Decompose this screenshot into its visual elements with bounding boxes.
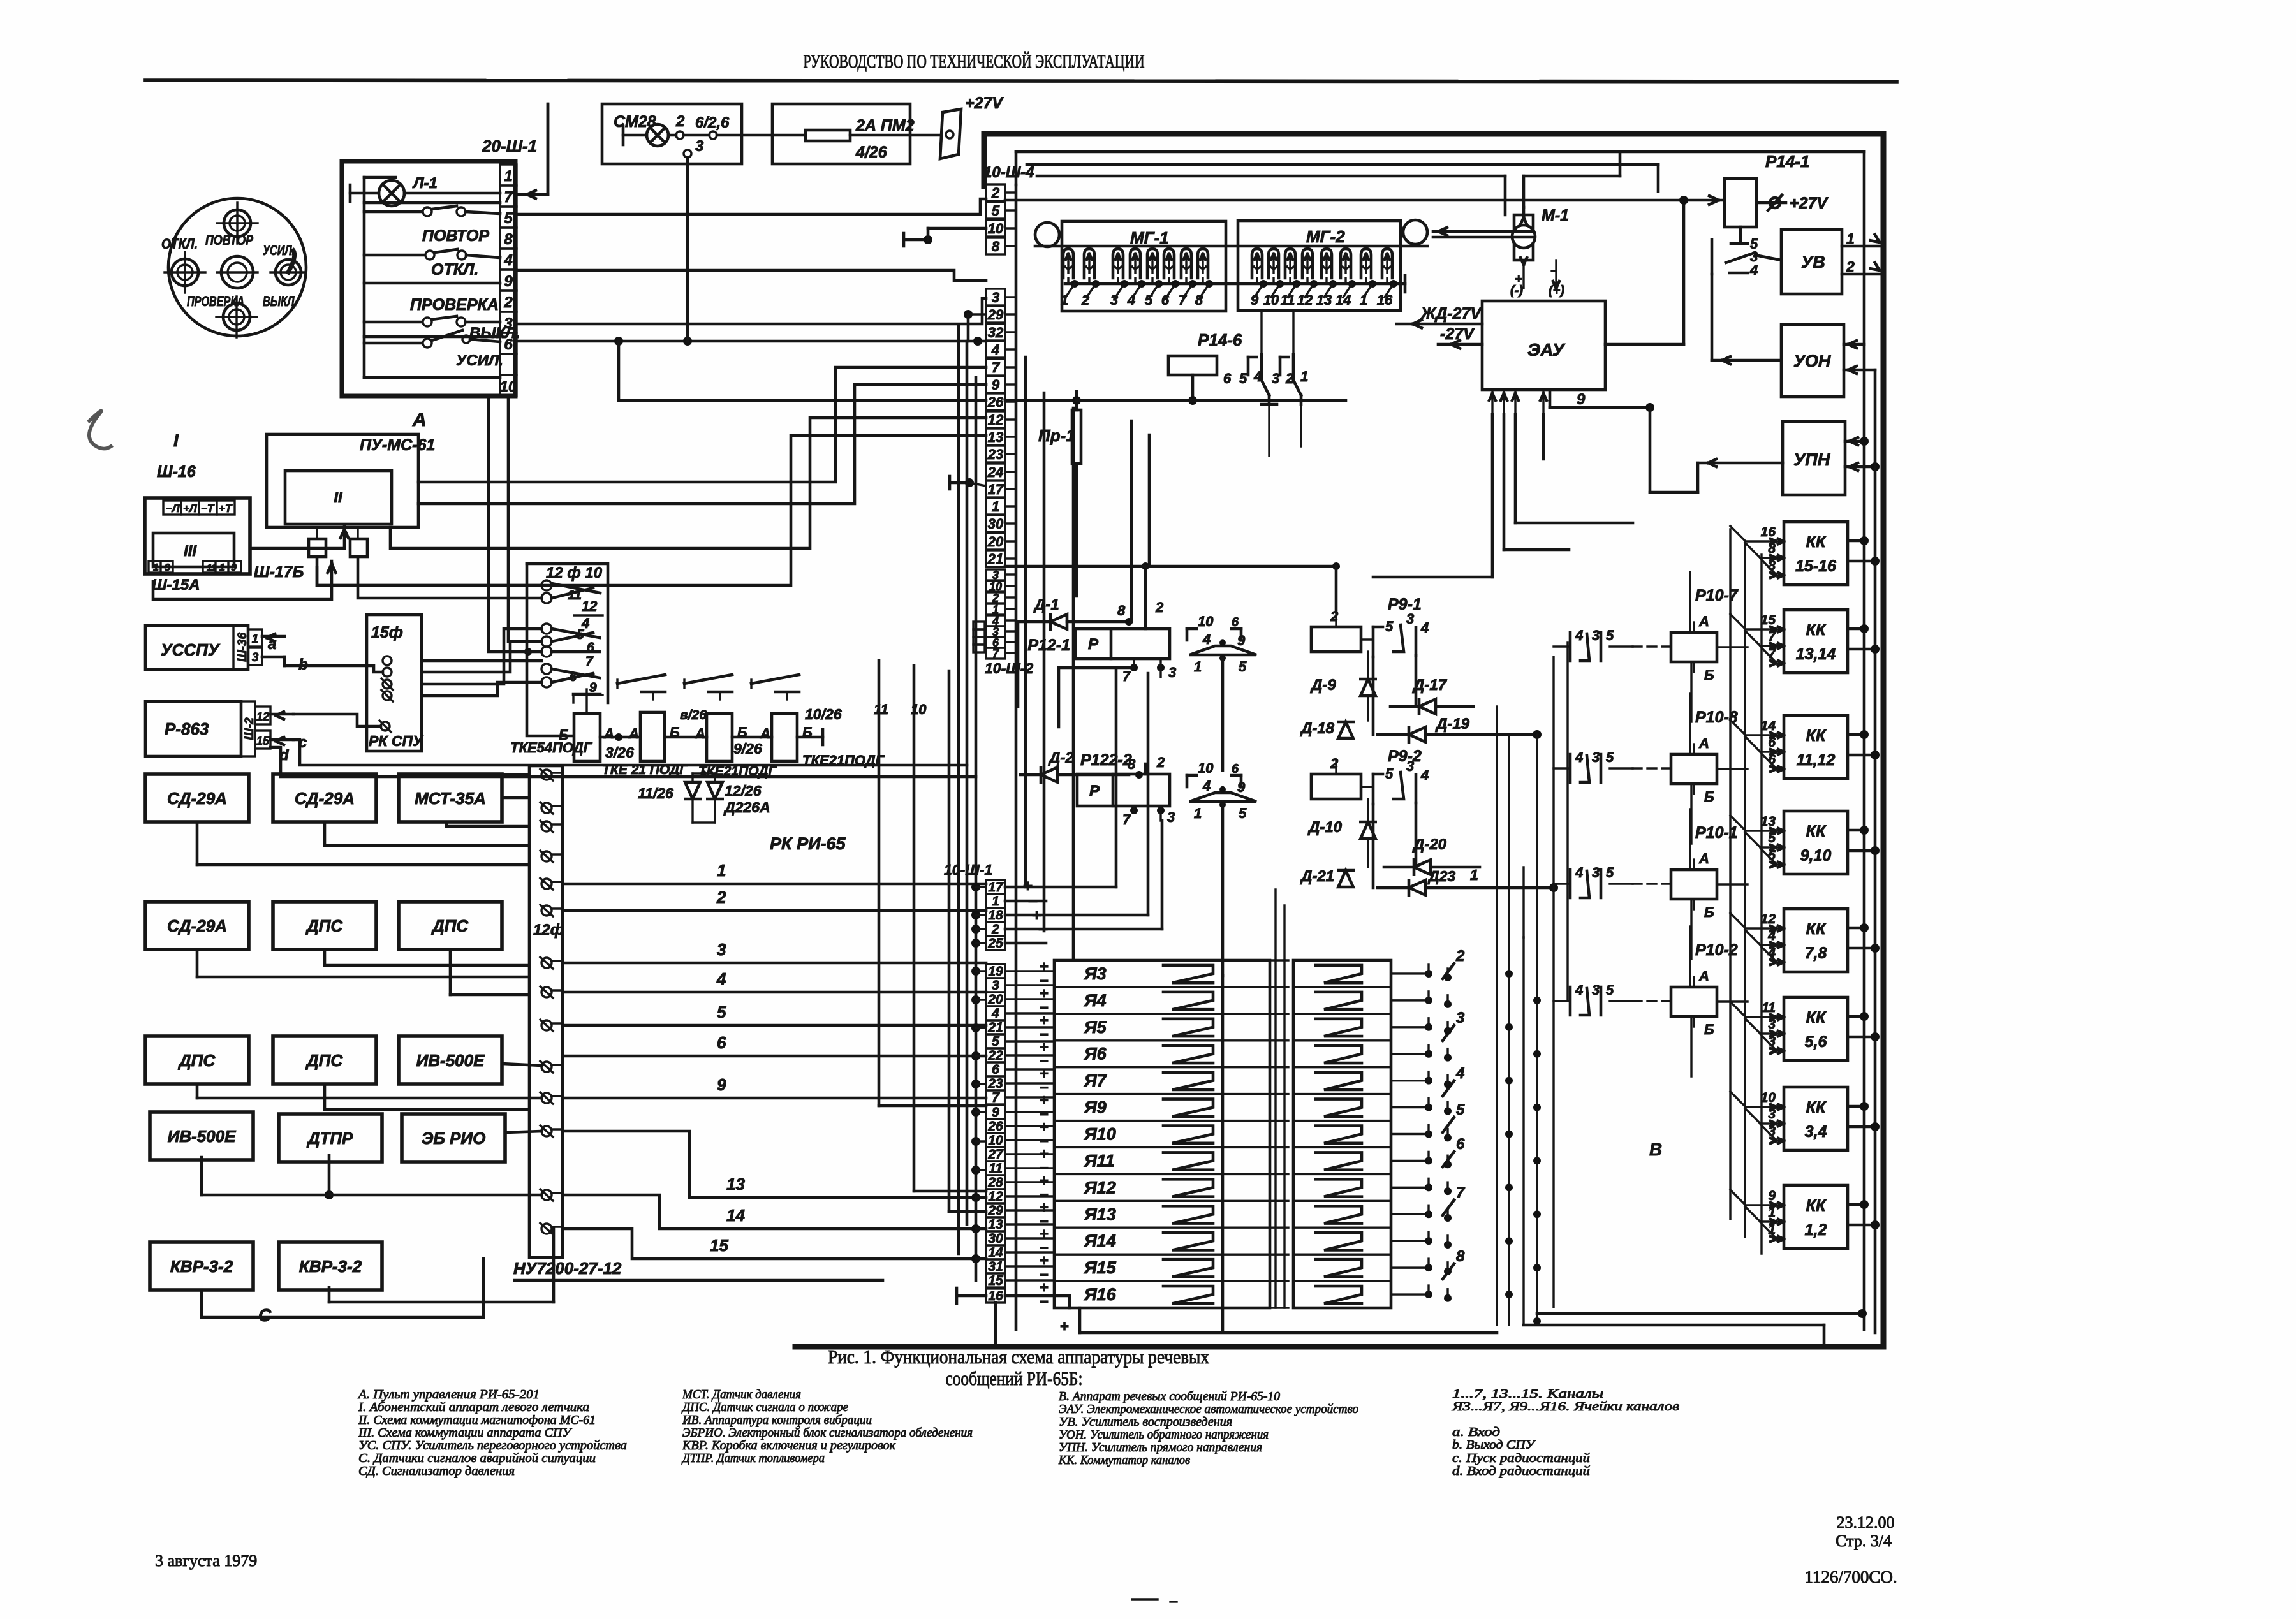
sensor box СД-29А <box>145 902 249 949</box>
svg-text:5: 5 <box>1239 659 1247 675</box>
svg-text:3: 3 <box>1592 749 1600 765</box>
svg-text:УС. СПУ. Усилитель переговорно: УС. СПУ. Усилитель переговорного устройс… <box>358 1439 627 1453</box>
wire TKE54 to TKE21 A-A <box>600 736 640 739</box>
sensor box СД-29А <box>273 774 376 822</box>
wires RK SPU to 12f10 <box>422 659 541 663</box>
svg-text:1: 1 <box>219 562 225 573</box>
svg-text:4: 4 <box>1202 778 1211 794</box>
stubs strip to inner bundle <box>1005 191 1016 193</box>
svg-text:А: А <box>603 726 614 742</box>
EAU box <box>1482 301 1605 390</box>
R9-1 contacts <box>1372 627 1375 657</box>
svg-text:СД-29А: СД-29А <box>167 789 227 808</box>
svg-text:10: 10 <box>1198 760 1214 776</box>
svg-text:32: 32 <box>988 325 1004 341</box>
amplifier UV box <box>1781 230 1842 294</box>
NU7200 bottom line <box>515 1279 883 1282</box>
unit B outer border <box>984 131 1883 137</box>
svg-text:В: В <box>1649 1139 1662 1159</box>
tape reel left <box>1035 223 1059 247</box>
svg-text:11: 11 <box>1762 1000 1776 1015</box>
svg-text:9: 9 <box>717 1075 726 1094</box>
R14-1 to +27V <box>1756 201 1786 205</box>
svg-text:3: 3 <box>1406 611 1414 627</box>
svg-text:6: 6 <box>717 1033 726 1052</box>
svg-text:ПРОВЕРКА: ПРОВЕРКА <box>410 296 499 314</box>
connector strip cells upper <box>986 184 1005 201</box>
R14-1 lower switch <box>1739 227 1742 241</box>
junction dots on left bus <box>971 883 980 891</box>
svg-text:+Л: +Л <box>183 502 197 515</box>
unit II box <box>285 471 392 524</box>
wires row3 to column <box>196 1084 199 1098</box>
amplifier UON box <box>1781 325 1844 397</box>
switch VYKL-USIL <box>364 342 422 345</box>
svg-text:9: 9 <box>231 562 237 573</box>
svg-text:5: 5 <box>1606 865 1614 881</box>
svg-text:МСТ-35А: МСТ-35А <box>415 789 486 808</box>
svg-text:9: 9 <box>589 680 597 695</box>
svg-text:5: 5 <box>1606 982 1614 998</box>
svg-text:6: 6 <box>1232 615 1239 629</box>
svg-text:Ш-15А: Ш-15А <box>152 576 200 594</box>
sensor box МСТ-35А <box>399 774 502 822</box>
svg-text:13,14: 13,14 <box>1796 645 1836 663</box>
svg-text:ЭАУ: ЭАУ <box>1527 340 1566 360</box>
wires Sh-17B arrows <box>250 527 344 548</box>
svg-text:Р12-1: Р12-1 <box>1027 636 1070 654</box>
svg-text:А: А <box>1698 613 1709 629</box>
R-863 Sh-2 cells <box>241 701 255 756</box>
svg-text:8: 8 <box>1456 1248 1465 1265</box>
left bus verticals before strip <box>957 326 960 1254</box>
svg-text:ДПС: ДПС <box>305 916 343 935</box>
svg-text:1...7, 13...15. Каналы: 1...7, 13...15. Каналы <box>1452 1387 1603 1401</box>
sensor box ДПС <box>273 902 376 949</box>
sensor box ИВ-500Е <box>399 1036 502 1084</box>
tape line <box>1035 245 1427 248</box>
svg-text:15: 15 <box>988 1273 1003 1288</box>
svg-text:3: 3 <box>717 940 726 959</box>
tape reel right <box>1403 220 1427 244</box>
EAU bottom wire risers <box>1491 414 1494 577</box>
svg-text:5: 5 <box>1606 749 1614 765</box>
svg-text:9: 9 <box>1768 1189 1776 1203</box>
svg-text:КК. Коммутатор каналов: КК. Коммутатор каналов <box>1058 1453 1190 1467</box>
svg-text:Я7: Я7 <box>1084 1071 1108 1090</box>
wire panel pin4 to strip <box>517 270 986 281</box>
svg-text:15ф: 15ф <box>371 624 403 641</box>
svg-text:7: 7 <box>1122 812 1131 828</box>
KK 9,10 outputs <box>1848 829 1864 832</box>
svg-text:1: 1 <box>1768 1205 1776 1220</box>
svg-text:15: 15 <box>256 735 270 747</box>
svg-text:13: 13 <box>1761 814 1776 829</box>
svg-text:3: 3 <box>1456 1009 1465 1027</box>
wire cell26 row to R14-6 <box>1005 399 1077 402</box>
channel wire 13 staircase <box>564 1131 986 1198</box>
wires bundle bottoms to cells <box>879 1104 986 1108</box>
svg-text:в/26: в/26 <box>680 708 707 722</box>
svg-text:ПУ-МС-61: ПУ-МС-61 <box>360 436 435 454</box>
sensor box ЭБ РИО <box>402 1114 505 1162</box>
svg-text:Д-9: Д-9 <box>1310 677 1336 694</box>
svg-text:16: 16 <box>988 1289 1003 1303</box>
motor M-1 wires to MG-2 <box>1433 230 1533 233</box>
svg-text:СД. Сигнализатор давления: СД. Сигнализатор давления <box>358 1464 515 1478</box>
cam and junction verticals extended <box>1221 976 1225 1330</box>
svg-text:СД-29А: СД-29А <box>167 916 227 935</box>
svg-text:С. Датчики сигналов аварийной: С. Датчики сигналов аварийной ситуации <box>358 1451 596 1465</box>
svg-text:А: А <box>628 726 639 742</box>
svg-text:1: 1 <box>992 603 999 616</box>
left bottom border of B <box>994 1303 997 1347</box>
wires II to strip <box>418 367 986 482</box>
panel A outer box <box>342 161 515 396</box>
KK input feeder verticals <box>1729 529 1731 1219</box>
svg-text:2: 2 <box>1330 608 1339 624</box>
svg-text:11: 11 <box>874 701 888 717</box>
commutator KK 1,2 <box>1784 1185 1848 1249</box>
svg-text:М-1: М-1 <box>1542 207 1569 224</box>
bus bundle inside B <box>1024 357 1027 887</box>
svg-text:21: 21 <box>987 551 1003 567</box>
svg-text:Д-21: Д-21 <box>1300 868 1334 885</box>
svg-text:5: 5 <box>1239 805 1247 821</box>
svg-text:9: 9 <box>504 273 513 290</box>
svg-text:a. Вход: a. Вход <box>1452 1425 1500 1439</box>
tape deck MG-1 box <box>1062 221 1226 311</box>
TKE21-1 contact <box>684 675 732 684</box>
svg-text:10: 10 <box>988 1133 1003 1148</box>
svg-text:24: 24 <box>987 464 1003 480</box>
unit III box <box>153 533 234 567</box>
svg-text:1: 1 <box>153 562 159 573</box>
svg-text:9: 9 <box>1237 633 1246 648</box>
svg-text:11: 11 <box>1281 292 1295 308</box>
svg-text:Р10-7: Р10-7 <box>1695 587 1739 604</box>
motor arrows <box>1520 217 1527 225</box>
svg-text:6: 6 <box>1768 735 1776 750</box>
svg-text:КК: КК <box>1806 727 1827 745</box>
svg-text:1: 1 <box>1194 659 1202 675</box>
svg-text:В. Аппарат речевых сообщений Р: В. Аппарат речевых сообщений РИ-65-10 <box>1059 1389 1280 1403</box>
svg-text:7: 7 <box>585 654 594 669</box>
svg-text:1: 1 <box>1194 805 1202 821</box>
svg-text:15-16: 15-16 <box>1795 557 1837 575</box>
svg-text:ПОВТОР: ПОВТОР <box>422 227 489 245</box>
wire panel pin2 to strip <box>517 298 986 324</box>
svg-text:Р-863: Р-863 <box>165 719 209 738</box>
relay Р10-7 contacts <box>1569 633 1572 661</box>
relay Р10-2 contacts <box>1569 987 1572 1015</box>
svg-text:6: 6 <box>992 1062 999 1077</box>
channel wire 15 staircase <box>564 1229 986 1259</box>
unit I bottom pins <box>149 561 173 573</box>
svg-text:10: 10 <box>1198 613 1214 629</box>
svg-text:КК: КК <box>1806 621 1827 639</box>
wires row4 to column <box>200 1157 203 1195</box>
svg-text:9,10: 9,10 <box>1800 847 1832 865</box>
svg-text:1: 1 <box>992 499 999 515</box>
svg-text:2: 2 <box>1455 948 1465 965</box>
commutator KK 11,12 <box>1784 715 1848 779</box>
lamp L-1 <box>349 185 352 201</box>
panel A pin strip <box>500 165 517 186</box>
Sh-16 pin cells <box>163 501 235 515</box>
svg-text:−Т: −Т <box>201 502 215 515</box>
svg-text:С: С <box>258 1305 272 1325</box>
svg-text:4: 4 <box>1202 631 1211 647</box>
svg-text:Рис. 1. Функциональная схема а: Рис. 1. Функциональная схема аппаратуры … <box>828 1345 1209 1368</box>
svg-text:5: 5 <box>1456 1101 1465 1118</box>
svg-text:Я9: Я9 <box>1084 1098 1107 1117</box>
svg-text:Б: Б <box>1704 1022 1714 1037</box>
nested wires left of strip upper <box>686 321 689 341</box>
svg-text:КК: КК <box>1806 1009 1827 1027</box>
strip left stub wires <box>927 228 930 240</box>
wire panel pin5 to strip <box>517 199 986 214</box>
unit B inner left border <box>1015 185 1018 1330</box>
svg-text:Я10: Я10 <box>1084 1125 1116 1144</box>
svg-text:20: 20 <box>987 534 1004 550</box>
svg-text:ЖД-27V: ЖД-27V <box>1420 305 1482 323</box>
svg-text:b. Выход СПУ: b. Выход СПУ <box>1452 1438 1536 1452</box>
relay Р10-8 coil <box>1671 754 1717 784</box>
svg-text:Д-10: Д-10 <box>1307 819 1343 836</box>
svg-text:16: 16 <box>1761 525 1776 539</box>
svg-text:2: 2 <box>991 185 1000 201</box>
svg-text:29: 29 <box>987 1203 1003 1218</box>
svg-text:ДПС: ДПС <box>305 1051 343 1070</box>
dimmer contacts <box>668 134 676 137</box>
svg-text:4: 4 <box>1575 749 1583 765</box>
svg-text:2: 2 <box>992 592 999 604</box>
top inner nested lines <box>1027 163 1658 166</box>
svg-text:6: 6 <box>1232 762 1239 776</box>
svg-text:Б: Б <box>1704 904 1714 920</box>
svg-text:2: 2 <box>991 922 999 937</box>
svg-text:5: 5 <box>992 203 1000 219</box>
svg-text:6/2,6: 6/2,6 <box>695 114 730 131</box>
tbar cell17 area <box>948 476 952 489</box>
R9-2 contacts <box>1372 774 1375 804</box>
svg-text:Д226А: Д226А <box>723 799 770 816</box>
commutator KK 13,14 <box>1784 610 1848 673</box>
svg-text:12/26: 12/26 <box>725 782 762 799</box>
unit B inner top line <box>1016 150 1864 154</box>
wires R-863 to RK SPU <box>293 714 381 726</box>
svg-text:Д-17: Д-17 <box>1412 677 1448 694</box>
svg-text:КК: КК <box>1806 533 1827 551</box>
svg-text:ВЫКЛ.: ВЫКЛ. <box>469 325 520 342</box>
R14-6 contact risers <box>1260 311 1262 355</box>
ZhD arrows <box>1397 323 1482 326</box>
svg-text:2: 2 <box>1156 754 1165 770</box>
svg-text:ЭАУ. Электромеханическое автом: ЭАУ. Электромеханическое автоматическое … <box>1059 1402 1358 1416</box>
svg-text:А: А <box>412 409 427 430</box>
arrow a into USSPU <box>262 635 284 638</box>
svg-text:9: 9 <box>992 1105 999 1120</box>
svg-text:7,8: 7,8 <box>1805 944 1827 962</box>
svg-text:14: 14 <box>1336 292 1351 308</box>
svg-text:Д-19: Д-19 <box>1435 715 1470 733</box>
svg-text:ПОВТОР: ПОВТОР <box>205 232 253 248</box>
svg-text:ЭБ РИО: ЭБ РИО <box>422 1129 486 1148</box>
wire +27 tbar <box>902 233 906 246</box>
svg-text:5: 5 <box>504 210 513 227</box>
svg-text:Я4: Я4 <box>1084 991 1107 1010</box>
svg-text:Я15: Я15 <box>1084 1258 1117 1277</box>
svg-text:Р: Р <box>1089 782 1100 800</box>
dimmer pin 3 <box>684 150 691 158</box>
motor M-1 <box>1514 215 1533 260</box>
cell 16 ground stub <box>957 1294 986 1298</box>
svg-text:9: 9 <box>1577 391 1586 408</box>
svg-text:3: 3 <box>1168 664 1176 680</box>
svg-text:ДПС: ДПС <box>178 1051 216 1070</box>
svg-text:УССПУ: УССПУ <box>161 640 221 659</box>
channel cell Я9 <box>1054 1093 1270 1095</box>
channel cell Я13 <box>1054 1200 1270 1202</box>
commutator KK 9,10 <box>1784 811 1848 874</box>
svg-text:3: 3 <box>1592 982 1600 998</box>
head bus <box>1065 282 1405 286</box>
svg-text:2: 2 <box>716 888 726 907</box>
svg-text:3: 3 <box>1592 865 1600 881</box>
sensor box ДПС <box>145 1036 249 1084</box>
svg-text:12: 12 <box>988 1189 1003 1204</box>
svg-text:КВР-3-2: КВР-3-2 <box>299 1257 362 1276</box>
svg-text:Ш-17Б: Ш-17Б <box>254 563 304 581</box>
svg-text:27: 27 <box>987 1147 1004 1162</box>
commutator KK 7,8 <box>1784 909 1848 972</box>
svg-text:4: 4 <box>716 969 726 988</box>
svg-text:Р14-1: Р14-1 <box>1765 152 1809 171</box>
svg-text:13: 13 <box>726 1175 745 1194</box>
svg-text:−Л: −Л <box>166 502 180 515</box>
dot cell29 <box>964 310 973 319</box>
svg-text:4: 4 <box>1420 767 1429 783</box>
commutator KK 5,6 <box>1784 997 1848 1060</box>
svg-text:ВЫКЛ.: ВЫКЛ. <box>263 293 297 309</box>
svg-text:II: II <box>334 489 343 506</box>
channel cell Я16 <box>1054 1280 1270 1282</box>
relay Р10-8 contacts <box>1569 754 1572 782</box>
svg-text:2: 2 <box>1330 756 1339 772</box>
svg-text:А: А <box>760 726 770 742</box>
svg-text:c. Пуск радиостанций: c. Пуск радиостанций <box>1452 1451 1590 1465</box>
svg-text:12: 12 <box>582 598 598 614</box>
svg-text:22: 22 <box>987 1048 1003 1063</box>
channel cell box 2 <box>1293 960 1391 1308</box>
svg-text:А: А <box>1698 851 1709 867</box>
RK SPU contacts <box>383 656 392 665</box>
svg-text:30: 30 <box>988 516 1004 532</box>
svg-text:8: 8 <box>504 231 513 248</box>
svg-text:Я3...Я7, Я9...Я16. Ячейки кана: Я3...Я7, Я9...Я16. Ячейки каналов <box>1452 1400 1680 1414</box>
svg-text:Я14: Я14 <box>1084 1231 1116 1250</box>
unit II lower connectors <box>316 527 318 539</box>
dimmer SM28 box <box>602 104 742 164</box>
header rule <box>145 80 1897 82</box>
svg-text:3/26: 3/26 <box>605 744 634 761</box>
svg-text:1: 1 <box>504 168 512 185</box>
svg-text:5,6: 5,6 <box>1805 1033 1828 1051</box>
svg-text:УПН: УПН <box>1793 450 1830 469</box>
svg-text:3 августа 1979: 3 августа 1979 <box>155 1551 257 1570</box>
handwritten mark <box>89 411 111 448</box>
switch OTKL <box>364 254 425 257</box>
svg-text:Р9-1: Р9-1 <box>1388 596 1422 613</box>
Ya contact second dots <box>1444 974 1452 981</box>
long verticals mid bundle <box>878 661 881 1106</box>
panel A inner partition <box>363 177 366 377</box>
svg-text:ПРОВЕРКА: ПРОВЕРКА <box>187 293 244 309</box>
diode D-23 <box>1409 880 1425 895</box>
svg-text:3: 3 <box>1768 1107 1776 1122</box>
sensor box СД-29А <box>145 774 249 822</box>
svg-text:ДПС: ДПС <box>431 916 469 935</box>
svg-text:23: 23 <box>987 1076 1003 1091</box>
sensor box ДПС <box>273 1036 376 1084</box>
R12-1 pins <box>1125 618 1133 626</box>
wire d long <box>270 747 976 777</box>
svg-text:3: 3 <box>992 289 999 305</box>
svg-text:А: А <box>1698 968 1709 984</box>
unit I outer box <box>145 498 250 574</box>
svg-text:7: 7 <box>992 1090 1000 1105</box>
wire 9 from EAU <box>1549 390 1552 407</box>
svg-text:Б: Б <box>559 727 569 743</box>
NU7200 column box <box>529 766 563 1257</box>
svg-text:1: 1 <box>992 894 999 909</box>
svg-text:9: 9 <box>1251 292 1259 308</box>
right mid vertical bundle <box>1552 657 1554 1307</box>
svg-text:СД-29А: СД-29А <box>295 789 355 808</box>
svg-text:Я12: Я12 <box>1084 1178 1116 1197</box>
svg-text:МГ-1: МГ-1 <box>1130 228 1169 247</box>
amplifier UPN box <box>1783 421 1845 495</box>
commutator KK 3,4 <box>1784 1087 1848 1150</box>
svg-text:3,4: 3,4 <box>1805 1123 1827 1141</box>
switch group 12f10 contacts <box>541 580 552 590</box>
wires USSPU b to RK SPU <box>284 666 383 672</box>
svg-text:(-): (-) <box>1510 284 1523 298</box>
strip small zig cells <box>973 622 985 629</box>
wire panel pin3 long <box>517 340 986 343</box>
svg-text:Р122-2: Р122-2 <box>1080 751 1132 769</box>
svg-text:17: 17 <box>988 481 1004 497</box>
svg-text:ИВ. Аппаратура контроля вибрац: ИВ. Аппаратура контроля вибрации <box>682 1413 872 1427</box>
svg-text:3: 3 <box>992 978 999 993</box>
svg-text:29: 29 <box>987 307 1004 323</box>
connector strip cells 10-Sh-2 section <box>986 569 1005 580</box>
wire pin7 to dimmer <box>518 193 548 196</box>
TKE21-2 contact <box>751 675 799 684</box>
svg-text:5: 5 <box>992 1034 999 1049</box>
svg-text:9: 9 <box>992 377 1000 393</box>
svg-text:d. Вход радиостанций: d. Вход радиостанций <box>1452 1464 1590 1478</box>
svg-text:11: 11 <box>207 562 217 573</box>
svg-text:КК: КК <box>1806 823 1827 840</box>
svg-text:6: 6 <box>1456 1136 1465 1153</box>
svg-text:7: 7 <box>1768 629 1776 644</box>
svg-text:‾: ‾ <box>1550 270 1556 284</box>
svg-text:10: 10 <box>500 378 517 395</box>
R9 contact down risers <box>1415 656 1418 707</box>
svg-text:28: 28 <box>987 1175 1003 1190</box>
